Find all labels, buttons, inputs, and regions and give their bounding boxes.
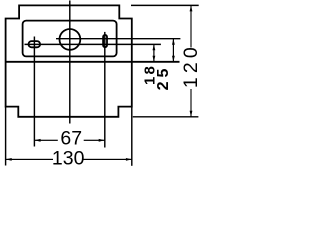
dim 120 line <box>190 5 191 47</box>
left slot (horizontal obround) <box>29 41 41 47</box>
vertical centerline through circle <box>69 1 71 124</box>
right slot (vertical obround) <box>103 35 107 47</box>
bottom edge extension to 120 dim <box>133 116 199 118</box>
mounting plate (rounded rect) <box>23 21 117 57</box>
left box side extension down to 130 dim <box>5 107 7 166</box>
right box side extension down to 130 dim <box>131 107 133 166</box>
svg-text:67: 67 <box>60 128 82 150</box>
line A: circle horizontal centerline / 25 reference <box>56 38 180 40</box>
circle (wiring hole) <box>60 29 81 50</box>
line B: slot horizontal centerline / 18 reference <box>25 43 161 45</box>
dim 130 line <box>6 159 54 160</box>
svg-text:130: 130 <box>52 147 85 169</box>
line C: bottom reference line <box>6 61 180 63</box>
svg-text:120: 120 <box>180 43 201 88</box>
dim 67 line <box>34 140 57 141</box>
top edge extension to 120 dim <box>131 4 199 6</box>
dim 25 line <box>173 39 174 62</box>
fixture body outline <box>6 5 132 116</box>
dim 18 line <box>153 44 154 62</box>
vertical centerline right slot / 67 extension <box>104 32 106 148</box>
vertical centerline left slot / 67 extension <box>33 37 35 147</box>
svg-text:18: 18 <box>142 64 159 85</box>
